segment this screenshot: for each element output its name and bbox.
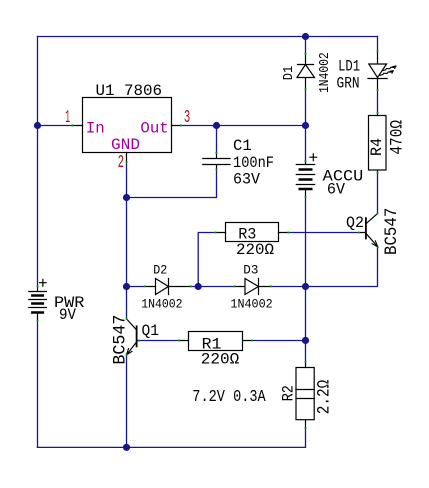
svg-text:2.2Ω: 2.2Ω (315, 380, 335, 415)
svg-text:GRN: GRN (337, 75, 360, 93)
svg-text:Q1: Q1 (142, 322, 160, 340)
svg-text:100nF: 100nF (233, 154, 274, 172)
svg-text:6V: 6V (327, 181, 346, 199)
svg-text:2: 2 (118, 153, 124, 173)
svg-text:GND: GND (111, 136, 140, 154)
svg-text:In: In (86, 119, 105, 137)
svg-text:LD1: LD1 (338, 57, 360, 75)
svg-text:U1 7806: U1 7806 (96, 82, 163, 100)
svg-text:Out: Out (140, 119, 168, 137)
svg-text:3: 3 (184, 108, 190, 128)
svg-text:C1: C1 (233, 137, 252, 155)
svg-text:D1: D1 (281, 66, 297, 81)
svg-text:BC547: BC547 (382, 208, 402, 255)
svg-text:9V: 9V (59, 306, 77, 324)
svg-text:63V: 63V (233, 171, 261, 189)
svg-text:470Ω: 470Ω (388, 120, 408, 155)
svg-text:R2: R2 (280, 385, 298, 401)
svg-text:7.2V 0.3A: 7.2V 0.3A (192, 388, 266, 407)
svg-text:1N4002: 1N4002 (317, 52, 333, 93)
svg-text:BC547: BC547 (111, 315, 131, 365)
svg-text:1N4002: 1N4002 (141, 297, 182, 311)
svg-text:D2: D2 (153, 264, 167, 278)
svg-text:1: 1 (65, 108, 70, 128)
svg-text:D3: D3 (243, 263, 258, 277)
svg-text:R4: R4 (368, 138, 386, 156)
svg-text:1N4002: 1N4002 (230, 297, 272, 311)
svg-text:220Ω: 220Ω (201, 351, 240, 369)
svg-text:Q2: Q2 (346, 214, 364, 232)
svg-text:220Ω: 220Ω (236, 241, 274, 259)
